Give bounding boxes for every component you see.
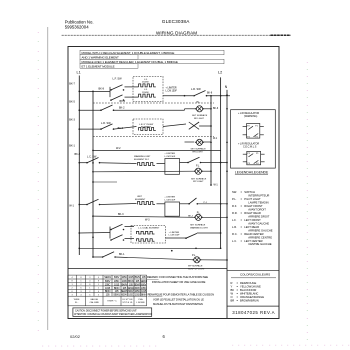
svg-text:LEGENDA/LEGENDE: LEGENDA/LEGENDE xyxy=(235,171,269,175)
svg-text:5995362004: 5995362004 xyxy=(65,25,90,30)
wire row4 xyxy=(185,141,195,143)
wire row9 xyxy=(93,216,195,217)
part number separator xyxy=(227,305,279,307)
diagram outer frame xyxy=(68,47,279,319)
pilot light P.L. RR xyxy=(195,139,204,145)
svg-text:REMARK: FOR CONNECTING THE PL: REMARK: FOR CONNECTING THE PLATFORM SEE xyxy=(147,275,208,279)
svg-text:318047025 REV.A: 318047025 REV.A xyxy=(232,310,275,315)
svg-text:ATTENTION: COUPER LE COURANT A: ATTENTION: COUPER LE COURANT AVANT D'EFF… xyxy=(74,313,152,316)
wire row11 xyxy=(79,247,220,249)
svg-text:L.CM 150F: L.CM 150F xyxy=(164,156,175,158)
svg-text:TEMP. °C: TEMP. °C xyxy=(107,301,117,303)
svg-text:L.F.: L.F. xyxy=(232,218,237,222)
color entry W xyxy=(231,292,259,296)
svg-text:L.CM 150F: L.CM 150F xyxy=(166,91,178,93)
heating element L.C. lower xyxy=(137,239,155,242)
svg-text:P.L.: P.L. xyxy=(197,101,201,104)
wire row2 xyxy=(79,109,101,111)
legend entry L.C. xyxy=(232,239,272,246)
svg-text:SW.: SW. xyxy=(232,190,237,194)
svg-text:(WARMING): (WARMING) xyxy=(244,115,258,118)
legend entry L.R. xyxy=(232,225,273,232)
svg-text:W-1: W-1 xyxy=(213,138,218,140)
svg-text:BK-1: BK-1 xyxy=(119,253,125,256)
svg-text:600V: 600V xyxy=(135,286,141,290)
svg-text:W-1: W-1 xyxy=(69,205,74,208)
svg-text:SET SURFACE: SET SURFACE xyxy=(192,114,208,117)
svg-text:L.R. SW: L.R. SW xyxy=(101,121,111,125)
wire row3 cont xyxy=(114,127,137,130)
svg-text:ARRIERE CENTRE: ARRIERE CENTRE xyxy=(248,235,272,239)
svg-text:L.CM 150F: L.CM 150F xyxy=(164,199,175,201)
svg-text:+ LIMITER: + LIMITER xyxy=(164,153,175,155)
wire to warming element xyxy=(100,162,137,165)
model description block xyxy=(80,50,224,68)
svg-text:SEW1: SEW1 xyxy=(121,289,128,293)
svg-text:BLACK/NOIR: BLACK/NOIR xyxy=(240,288,256,292)
svg-text:MODELE AVEC 1 ELEMENT REGULIER: MODELE AVEC 1 ELEMENT REGULIER, 1 ELEMEN… xyxy=(82,60,178,64)
wire bus2 xyxy=(92,91,94,257)
pilot light P.L. RF xyxy=(195,106,204,112)
svg-text:ET 1 ELEMENT MODULE: ET 1 ELEMENT MODULE xyxy=(82,64,115,68)
switch row12 xyxy=(93,256,103,258)
svg-text:BR: BR xyxy=(231,298,235,302)
svg-text:1015: 1015 xyxy=(114,282,120,286)
svg-text:1015: 1015 xyxy=(135,293,141,297)
svg-text:REMARQUE POUR DEMONTER LA TABL: REMARQUE POUR DEMONTER LA TABLE DE CUISS… xyxy=(148,292,214,296)
legend entry R.C. xyxy=(232,232,272,239)
svg-text:R.R.: R.R. xyxy=(232,211,238,215)
svg-text:600V: 600V xyxy=(114,275,120,279)
pilot light WP xyxy=(194,168,203,174)
wire bridge feed 2 (dashed) xyxy=(93,136,214,138)
svg-text:CSA: CSA xyxy=(138,298,143,301)
svg-text:WP SURFACE: WP SURFACE xyxy=(188,265,203,268)
svg-text:AVANT GAUCHE: AVANT GAUCHE xyxy=(248,221,269,225)
switch L.R. SW row1 xyxy=(193,91,207,97)
svg-text:WARMING UNIT: WARMING UNIT xyxy=(134,155,151,158)
wire N bus xyxy=(226,90,228,318)
legend entry R.F. xyxy=(232,204,266,211)
svg-text:L NOMB: L NOMB xyxy=(136,302,145,304)
svg-text:105C: 105C xyxy=(114,279,120,283)
wire L1 bus xyxy=(78,76,80,256)
svg-text:P.L.: P.L. xyxy=(196,165,200,167)
svg-text:2500W: 2500W xyxy=(142,82,149,84)
svg-text:L.F. SW: L.F. SW xyxy=(113,76,123,80)
switch L.F. SW lower xyxy=(110,95,124,101)
svg-text:YELLOW/JAUNE: YELLOW/JAUNE xyxy=(240,285,261,289)
svg-text:+ LIMITER: + LIMITER xyxy=(164,197,175,199)
wire to element B xyxy=(100,204,137,205)
svg-text:1015: 1015 xyxy=(141,289,147,293)
wire row8 to L2 xyxy=(197,203,227,205)
regulator symbol 2 xyxy=(243,151,265,164)
svg-text:COLORS/COULEURS: COLORS/COULEURS xyxy=(240,273,270,277)
svg-text:RF LIGHT: RF LIGHT xyxy=(194,118,205,120)
svg-text:W-1: W-1 xyxy=(214,184,219,186)
colors box top line xyxy=(227,269,279,271)
svg-text:105C: 105C xyxy=(128,293,134,297)
svg-text:BK-5: BK-5 xyxy=(69,101,75,104)
svg-text:BK-8: BK-8 xyxy=(207,93,213,95)
pilot light warming xyxy=(194,214,203,220)
svg-text:ARRIERE GAUCHE: ARRIERE GAUCHE xyxy=(248,228,272,232)
svg-text:L.C. DUAL ELEMENT: L.C. DUAL ELEMENT xyxy=(138,227,160,230)
svg-text:BK-2: BK-2 xyxy=(188,215,194,217)
svg-text:VOIR LE FEUILLET D'INSTALLATIO: VOIR LE FEUILLET D'INSTALLATION OU LE xyxy=(153,297,204,301)
pilot light surf up xyxy=(193,257,202,263)
wire row12 xyxy=(115,257,193,260)
svg-text:CAUTION: DISCONNECT POWER BEFO: CAUTION: DISCONNECT POWER BEFORE SERVICI… xyxy=(75,309,137,312)
svg-text:BK-1: BK-1 xyxy=(69,145,75,148)
svg-text:1015: 1015 xyxy=(105,286,111,290)
svg-text:W-3: W-3 xyxy=(145,219,150,222)
svg-text:BK-2: BK-2 xyxy=(75,153,81,156)
junctions on mid bus xyxy=(210,95,212,186)
svg-text:W-2: W-2 xyxy=(116,147,121,150)
wire to element box xyxy=(125,86,139,88)
svg-text:BK/N: BK/N xyxy=(128,279,134,283)
junctions on L2 bus xyxy=(220,95,222,249)
legend regulator box xyxy=(231,110,276,168)
limiter box A xyxy=(165,159,180,175)
svg-text:P.L.: P.L. xyxy=(232,197,237,201)
svg-text:BK-2: BK-2 xyxy=(119,106,125,109)
svg-text:BK/N: BK/N xyxy=(114,286,120,290)
color entry BR xyxy=(231,298,259,302)
switch warming B xyxy=(86,199,100,205)
svg-text:RED/ROUGE: RED/ROUGE xyxy=(240,281,256,285)
wire row3 to mid bus xyxy=(199,125,211,127)
svg-text:AND 1 WARMING ELEMENT: AND 1 WARMING ELEMENT xyxy=(82,55,120,59)
svg-text:AVANT DROIT: AVANT DROIT xyxy=(248,207,266,211)
svg-text:600V: 600V xyxy=(128,289,134,293)
svg-text:BROWN/BRUN: BROWN/BRUN xyxy=(240,298,259,302)
switch row2 xyxy=(100,105,114,111)
svg-text:ORANGE/ORANGE: ORANGE/ORANGE xyxy=(240,295,264,299)
color entry Y xyxy=(231,285,261,289)
wire bridge feed xyxy=(93,102,214,104)
wire L2 bus xyxy=(220,77,222,249)
svg-text:SET SURFACE: SET SURFACE xyxy=(190,224,206,227)
svg-text:1015: 1015 xyxy=(122,279,128,283)
svg-text:ELEMENT: ELEMENT xyxy=(141,126,152,128)
element enclosure L.R. (dashed) xyxy=(133,119,163,135)
svg-text:600V: 600V xyxy=(122,293,128,297)
caution box xyxy=(73,308,152,317)
svg-text:1200W: 1200W xyxy=(142,92,149,94)
wire row8 feed xyxy=(79,204,87,206)
wire row6 to L2 xyxy=(201,162,228,164)
heating element warming B xyxy=(138,202,156,205)
wire element to cross switch xyxy=(163,124,186,127)
junctions on bus2 xyxy=(92,91,94,258)
svg-text:105C: 105C xyxy=(121,275,127,279)
heating element L.F. inner xyxy=(139,84,156,87)
legend entry R.R. xyxy=(232,211,270,218)
svg-text:MODEL WITH 1 REGULAR ELEMENT,: MODEL WITH 1 REGULAR ELEMENT, 1 DOUBLE E… xyxy=(82,51,175,55)
svg-text:INSTALLATION SHEET OR USE CANE: INSTALLATION SHEET OR USE CANE GUIDE xyxy=(152,280,206,284)
svg-text:1015: 1015 xyxy=(128,275,134,279)
switch P.L. SW row8 xyxy=(188,203,190,205)
color entry O xyxy=(231,295,265,299)
svg-text:WHITE/BLANC: WHITE/BLANC xyxy=(240,292,258,296)
svg-text:BK-6: BK-6 xyxy=(213,108,219,110)
wire row10 to L2 xyxy=(197,232,221,234)
svg-text:SEW1: SEW1 xyxy=(140,279,147,283)
svg-text:RR LIGHT: RR LIGHT xyxy=(193,151,204,153)
junctions on L1 bus xyxy=(78,91,80,250)
svg-text:BK-6: BK-6 xyxy=(118,127,124,130)
svg-text:INTERRUPTEUR: INTERRUPTEUR xyxy=(248,194,269,198)
junction misc nodes xyxy=(171,95,197,252)
svg-text:SET SURFACE: SET SURFACE xyxy=(191,177,207,180)
svg-text:WP LIGHT: WP LIGHT xyxy=(193,181,204,183)
svg-text:R: R xyxy=(231,281,233,285)
svg-text:+ LIMITER: + LIMITER xyxy=(169,232,180,234)
svg-text:P.L.: P.L. xyxy=(192,255,196,257)
legend entry L.F. xyxy=(232,218,269,225)
svg-text:STYLE UL: STYLE UL xyxy=(122,302,133,304)
svg-text:BK-8: BK-8 xyxy=(99,87,105,90)
svg-text:R.C.: R.C. xyxy=(232,232,238,236)
regulator symbol 1 xyxy=(243,124,264,139)
svg-text:ARRIERE DROIT: ARRIERE DROIT xyxy=(248,214,269,218)
svg-text:BK-7: BK-7 xyxy=(69,82,75,85)
svg-text:BK/N: BK/N xyxy=(105,289,111,293)
svg-text:F.L.: F.L. xyxy=(75,302,79,304)
svg-text:L.R.: L.R. xyxy=(232,225,237,229)
svg-text:ELEMENT: ELEMENT xyxy=(135,199,146,201)
svg-text:Y: Y xyxy=(231,285,233,289)
svg-text:L.R. SW: L.R. SW xyxy=(191,87,201,91)
svg-text:BK/N: BK/N xyxy=(141,293,147,297)
wire gauge table xyxy=(68,275,147,306)
heating element L.R. xyxy=(139,128,156,131)
wire mid bus xyxy=(210,96,212,185)
svg-text:O: O xyxy=(231,295,233,299)
wire row10 right xyxy=(166,237,187,239)
svg-text:GLEC3038A: GLEC3038A xyxy=(162,19,190,24)
wire row1 to L2 xyxy=(163,95,193,97)
wire box B to switch xyxy=(180,203,190,205)
svg-text:L.CM 150F: L.CM 150F xyxy=(169,235,180,237)
wire row6 feed xyxy=(79,162,87,164)
switch L.C. SW lower xyxy=(110,235,124,241)
svg-text:UL STYLE: UL STYLE xyxy=(122,299,133,301)
svg-text:BK-3: BK-3 xyxy=(118,213,124,216)
svg-text:105C: 105C xyxy=(134,289,140,293)
svg-text:L1: L1 xyxy=(77,71,81,75)
color entry R xyxy=(231,281,257,285)
element enclosure L.C. (dashed) xyxy=(131,226,166,243)
switch right row10 xyxy=(186,233,197,238)
svg-text:MANUEL D'UTILISATION ET D'ENTR: MANUEL D'UTILISATION ET D'ENTRETIEN xyxy=(153,302,203,306)
svg-text:105C: 105C xyxy=(105,282,111,286)
element enclosure L.F. dual (dashed) xyxy=(133,76,163,101)
svg-text:BK-3: BK-3 xyxy=(69,119,75,122)
junctions on N bus xyxy=(226,94,228,261)
wire to element box row10 xyxy=(125,226,135,228)
svg-text:L2: L2 xyxy=(218,70,222,74)
svg-text:ELEMENT W-2: ELEMENT W-2 xyxy=(134,159,150,161)
svg-text:+ LIMITER: + LIMITER xyxy=(166,88,177,90)
switch L.C. SW upper xyxy=(110,224,124,230)
switch cross row3 xyxy=(189,122,199,129)
svg-text:BK: BK xyxy=(231,288,235,292)
switch L.F. SW upper xyxy=(110,85,124,91)
svg-text:BK/N: BK/N xyxy=(122,282,128,286)
legend entry P.L. xyxy=(232,197,269,204)
remark french xyxy=(148,292,214,306)
wire row5 xyxy=(93,149,221,151)
wire row2 cont xyxy=(114,109,185,111)
heating element L.C. upper xyxy=(137,231,155,234)
svg-text:105C: 105C xyxy=(141,286,147,290)
wire row10 feed xyxy=(79,232,110,235)
page edge line xyxy=(47,27,49,330)
svg-text:R.F.: R.F. xyxy=(232,204,237,208)
svg-text:C.E.C.M.L.S: C.E.C.M.L.S xyxy=(243,146,257,149)
wire row7 xyxy=(93,170,195,173)
svg-text:L.C.: L.C. xyxy=(232,239,237,243)
svg-text:WIRE: WIRE xyxy=(74,299,80,301)
svg-text:L.C. SW: L.C. SW xyxy=(87,156,97,159)
wire row1 feed xyxy=(79,90,110,92)
svg-text:BK/N: BK/N xyxy=(135,275,141,279)
svg-text:02/02: 02/02 xyxy=(70,334,81,339)
svg-text:GAUGE: GAUGE xyxy=(90,298,98,301)
switch warming A xyxy=(86,158,100,164)
heating element warming A xyxy=(138,163,156,166)
svg-text:600V: 600V xyxy=(105,279,111,283)
svg-text:WARMING LIGHT: WARMING LIGHT xyxy=(190,226,208,229)
color entry BK xyxy=(231,288,257,292)
remark english xyxy=(147,275,208,284)
wire stub y182 xyxy=(93,181,117,183)
switch L.R. SW row3 xyxy=(100,124,114,130)
scan noise dots xyxy=(38,32,349,347)
wire row3 xyxy=(79,128,101,130)
svg-text:CAL.BRE: CAL.BRE xyxy=(90,301,100,304)
svg-text:SEW1: SEW1 xyxy=(113,293,120,297)
svg-text:LAMPE TEMOIN: LAMPE TEMOIN xyxy=(248,201,268,205)
svg-text:WIRING DIAGRAM: WIRING DIAGRAM xyxy=(156,30,197,35)
wire switch to L2 xyxy=(207,95,231,97)
svg-text:SEW1: SEW1 xyxy=(104,275,111,279)
heating element L.F. outer xyxy=(139,94,156,97)
legend entry SW. xyxy=(232,190,269,197)
wire bottom separator xyxy=(68,268,227,270)
limiter box B xyxy=(165,202,180,216)
svg-text:CENTRE GAUCHE: CENTRE GAUCHE xyxy=(248,242,272,246)
table text xyxy=(72,275,148,304)
svg-text:600V: 600V xyxy=(141,282,147,286)
switch right row6 xyxy=(180,162,189,164)
